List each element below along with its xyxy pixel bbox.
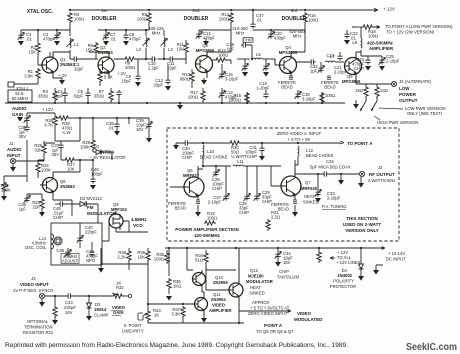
- svg-text:15K: 15K: [29, 50, 37, 55]
- svg-text:15K: 15K: [177, 47, 185, 52]
- capacitor C13: [219, 88, 238, 103]
- svg-text:L8: L8: [352, 40, 357, 45]
- svg-text:1N752A: 1N752A: [99, 150, 114, 155]
- svg-text:CHIP: CHIP: [243, 38, 253, 43]
- pot audio gain: [17, 115, 30, 125]
- svg-text:+ 2V: + 2V: [58, 73, 67, 78]
- resistor R19: [204, 211, 217, 225]
- svg-text:C48: C48: [56, 248, 64, 253]
- inductor L11: [233, 159, 262, 166]
- svg-text:PROTECTOR: PROTECTOR: [330, 284, 356, 289]
- wire amplifier collector: [352, 27, 361, 56]
- resistor R1: [24, 68, 40, 84]
- wire video modulated: [239, 310, 291, 313]
- svg-text:420-500MHz: 420-500MHz: [194, 233, 221, 238]
- node dots on top rail: [69, 9, 306, 11]
- transistor Q5: [344, 52, 362, 80]
- svg-text:MHz: MHz: [236, 31, 245, 36]
- resistor R3: [38, 88, 57, 103]
- label amplifier heading: [367, 41, 394, 51]
- svg-text:GAIN: GAIN: [12, 112, 23, 117]
- wire interstage 1: [50, 52, 98, 59]
- wire arrow +12V: [374, 8, 378, 11]
- svg-text:100Ω: 100Ω: [125, 65, 135, 70]
- label D4: [330, 268, 356, 289]
- wire video input: [45, 295, 112, 297]
- ferrite bead Q8: [168, 200, 201, 217]
- wire Q6 collector: [53, 160, 80, 216]
- label 420-500 MHz: [289, 29, 305, 39]
- svg-text:CHIP: CHIP: [239, 210, 249, 215]
- svg-text:.01: .01: [256, 18, 262, 23]
- svg-text:22K: 22K: [33, 205, 41, 210]
- svg-text:16V: 16V: [65, 310, 73, 315]
- svg-text:BEAD: BEAD: [278, 207, 289, 212]
- resistor R39: [137, 248, 150, 264]
- capacitor C33: [315, 173, 341, 203]
- svg-text:+ 12-14V: + 12-14V: [388, 251, 405, 256]
- svg-text:APPROX: APPROX: [252, 300, 270, 305]
- wire audio mid: [80, 118, 149, 141]
- svg-text:VIDEO INPUT: VIDEO INPUT: [20, 282, 49, 287]
- svg-text:SINKED: SINKED: [303, 200, 319, 205]
- label Q7: [301, 180, 319, 205]
- label optional termination: [23, 319, 54, 335]
- svg-text:100K: 100K: [1, 188, 11, 193]
- svg-text:+ 5 TO + 9V: + 5 TO + 9V: [288, 137, 311, 142]
- svg-text:– 9V REGULATOR: – 9V REGULATOR: [90, 155, 125, 160]
- label ZERO VIDEO INPUT: [277, 131, 322, 142]
- wire VCO bottom bus: [101, 264, 148, 270]
- capacitor C22: [344, 30, 358, 45]
- label DC input: [386, 251, 406, 262]
- svg-text:2.2Ω: 2.2Ω: [271, 215, 280, 220]
- svg-text:DOUBLER: DOUBLER: [282, 16, 307, 22]
- svg-text:CHIP: CHIP: [182, 155, 192, 160]
- capacitor C43: [64, 293, 76, 315]
- svg-text:100Ω: 100Ω: [325, 93, 335, 98]
- svg-text:100Ω: 100Ω: [74, 17, 84, 22]
- wire point A bus: [148, 311, 244, 323]
- svg-text:100Ω: 100Ω: [219, 17, 229, 22]
- svg-text:32pF: 32pF: [74, 67, 84, 72]
- svg-text:CHIP: CHIP: [354, 66, 364, 71]
- svg-text:2N3904: 2N3904: [211, 297, 226, 302]
- label Q5: [342, 74, 361, 84]
- capacitor C5: [73, 88, 90, 103]
- svg-text:100K: 100K: [80, 145, 90, 150]
- capacitor C32 series: [309, 59, 318, 73]
- capacitor C10: [148, 56, 159, 70]
- svg-text:+ 12V LINES: + 12V LINES: [336, 260, 361, 265]
- svg-text:P.A. TUNING: P.A. TUNING: [322, 204, 347, 209]
- capacitor C46: [90, 160, 103, 190]
- svg-text:15K: 15K: [138, 255, 146, 260]
- svg-text:CHIP: CHIP: [212, 186, 222, 191]
- connector J2 alternate: [391, 79, 432, 87]
- svg-text:BEAD: BEAD: [324, 85, 335, 90]
- resistor R14: [219, 12, 233, 24]
- leader lines version labels: [374, 108, 403, 120]
- svg-text:Reprinted with permission from: Reprinted with permission from Radio-Ele…: [5, 342, 348, 349]
- svg-text:MRF627: MRF627: [183, 173, 200, 178]
- svg-text:.01: .01: [26, 37, 32, 42]
- svg-text:L3: L3: [168, 47, 173, 52]
- svg-text:100Ω: 100Ω: [137, 17, 147, 22]
- ground symbol on rail: [177, 103, 183, 110]
- capacitor C12: [153, 65, 171, 91]
- svg-text:Q7: Q7: [305, 180, 311, 185]
- svg-text:+ 2V: + 2V: [117, 71, 126, 76]
- ferrite bead Q7: [271, 200, 298, 217]
- dashed enclosure: [167, 128, 399, 241]
- resistor R37: [147, 303, 195, 323]
- label FM MODULATOR: [87, 205, 117, 216]
- wire audio rail: [27, 113, 55, 141]
- svg-text:DOUBLER: DOUBLER: [92, 16, 117, 22]
- label 2nd doubler: [184, 8, 209, 22]
- svg-text:+ 12V: + 12V: [42, 107, 53, 112]
- label Q11: [209, 292, 232, 313]
- resistor R41: [317, 248, 321, 263]
- svg-text:15pF: 15pF: [167, 66, 177, 71]
- wire Q4 collector: [291, 40, 309, 62]
- diode D1: [90, 144, 125, 160]
- resistor R2: [29, 30, 41, 65]
- svg-text:J2 (ALTERNATE): J2 (ALTERNATE): [399, 79, 432, 84]
- svg-text:1st: 1st: [101, 8, 107, 13]
- svg-text:L10: L10: [207, 149, 215, 154]
- label 3rd doubler: [282, 8, 307, 22]
- label LOW PWR VERSION ONLY: [405, 106, 445, 116]
- svg-text:MHz: MHz: [293, 34, 302, 39]
- svg-text:OUTPUT: OUTPUT: [399, 98, 418, 103]
- resistor R4: [68, 12, 84, 24]
- label Q4: [279, 45, 298, 55]
- svg-text:POWER: POWER: [399, 92, 417, 97]
- svg-text:1N4002: 1N4002: [337, 273, 352, 278]
- label PA tuning: [322, 204, 347, 210]
- svg-text:CHIP: CHIP: [53, 215, 63, 220]
- svg-text:2000Ω: 2000Ω: [228, 98, 241, 103]
- wire Q10-Q11 link: [202, 270, 229, 298]
- svg-text:NPO: NPO: [86, 258, 96, 263]
- svg-text:BEAD: BEAD: [175, 206, 186, 211]
- svg-text:100Ω: 100Ω: [207, 216, 217, 221]
- label +12V to all lines: [330, 250, 361, 265]
- svg-text:1pF: 1pF: [310, 69, 318, 74]
- svg-text:100K: 100K: [41, 168, 51, 173]
- svg-text:16V: 16V: [136, 127, 144, 132]
- capacitor C15: [219, 64, 239, 82]
- svg-text:L1: L1: [74, 42, 79, 47]
- resistor R24: [36, 160, 51, 178]
- transistor Q6: [40, 172, 58, 196]
- svg-text:ZERO VIDEO INPUT: ZERO VIDEO INPUT: [248, 311, 288, 316]
- ground J2 stub: [358, 177, 364, 188]
- svg-text:DOUBLER: DOUBLER: [184, 16, 209, 22]
- wire +12V top rail: [70, 9, 378, 11]
- wire PA top feed: [176, 141, 344, 144]
- svg-text:R32: R32: [116, 285, 124, 290]
- transistor Q9 FET: [109, 211, 123, 230]
- svg-text:CHIP: CHIP: [247, 154, 257, 159]
- capacitor C45: [53, 201, 72, 220]
- svg-text:TANTALUM: TANTALUM: [277, 275, 299, 280]
- capacitor C11: [167, 56, 177, 70]
- svg-text:1N914: 1N914: [94, 307, 107, 312]
- transistor Q1: [38, 52, 58, 78]
- pot R33: [138, 304, 161, 323]
- capacitor C8: [123, 30, 141, 46]
- svg-text:MPS3866: MPS3866: [342, 79, 361, 84]
- pot R32: [112, 281, 132, 299]
- capacitor C36: [18, 125, 29, 139]
- svg-text:+ 5 TO + 6VOLTS AT: + 5 TO + 6VOLTS AT: [250, 306, 290, 311]
- svg-text:15Ω: 15Ω: [355, 88, 363, 93]
- resistor R11: [177, 40, 189, 59]
- resistor R29: [80, 128, 95, 152]
- transistor Q4: [271, 52, 297, 76]
- svg-text:FM: FM: [87, 205, 94, 210]
- svg-text:HEAT: HEAT: [304, 194, 315, 199]
- svg-text:POWER AMPLIFIER SECTION: POWER AMPLIFIER SECTION: [175, 227, 239, 232]
- svg-text:J2: J2: [378, 165, 383, 170]
- inductor L8: [352, 38, 362, 48]
- svg-text:2N3563: 2N3563: [60, 184, 75, 189]
- inductor L5: [237, 52, 271, 59]
- svg-text:LOW: LOW: [399, 86, 410, 91]
- svg-text:L2: L2: [136, 47, 141, 52]
- svg-text:1K: 1K: [154, 313, 159, 318]
- resistor R18: [352, 25, 380, 39]
- capacitor C27: [208, 192, 230, 205]
- inductor L1: [67, 38, 80, 48]
- label 105-125 MHz: [148, 26, 164, 36]
- capacitor C37: [51, 141, 80, 157]
- svg-text:10K: 10K: [67, 167, 75, 172]
- resistor R25: [34, 141, 55, 155]
- resistor R10: [180, 69, 194, 88]
- svg-text:C23: C23: [326, 53, 334, 58]
- connector J3: [39, 293, 45, 306]
- capacitor C3: [18, 30, 33, 46]
- capacitor C23: [326, 52, 342, 61]
- label TO POINT A: [385, 24, 453, 35]
- svg-text:HEAT: HEAT: [250, 285, 261, 290]
- capacitor C19: [295, 90, 316, 102]
- capacitor C47: [250, 10, 264, 29]
- label AUDIO GAIN: [12, 106, 27, 117]
- svg-text:LINEARITY: LINEARITY: [122, 329, 144, 334]
- wire J1 to amp: [16, 140, 44, 182]
- svg-text:OSC. COIL: OSC. COIL: [25, 245, 47, 250]
- svg-text:3rd: 3rd: [291, 8, 298, 13]
- version select arrow low pwr: [360, 101, 366, 111]
- connector J2 RF output: [359, 165, 395, 183]
- svg-text:POINT A: POINT A: [264, 323, 283, 328]
- ground C34 right: [338, 173, 344, 185]
- svg-text:MODULATOR: MODULATOR: [246, 279, 273, 284]
- svg-text:CHIP: CHIP: [279, 269, 289, 274]
- svg-text:100Ω: 100Ω: [188, 95, 198, 100]
- svg-text:15V: 15V: [283, 260, 291, 265]
- svg-text:INPUT: INPUT: [7, 153, 21, 158]
- label C34: [310, 159, 351, 170]
- wire interstage PA: [226, 166, 281, 192]
- svg-text:3-10pF: 3-10pF: [302, 97, 316, 102]
- svg-text:100Ω: 100Ω: [154, 257, 164, 262]
- capacitor C20: [268, 30, 287, 41]
- wire interstage 2: [89, 52, 186, 64]
- svg-text:BEAD CHOKE: BEAD CHOKE: [200, 155, 228, 160]
- wire Q7 collector: [295, 160, 322, 174]
- wire Q8 collector: [170, 166, 231, 187]
- resistor R38: [117, 248, 131, 264]
- svg-text:POLARITY: POLARITY: [333, 279, 354, 284]
- svg-text:ZERO VIDEO ∅ INPUT: ZERO VIDEO ∅ INPUT: [277, 131, 322, 136]
- svg-text:USED ON 2-WATT: USED ON 2-WATT: [343, 222, 381, 227]
- svg-text:SINKED: SINKED: [249, 291, 265, 296]
- svg-text:ADJUST: ADJUST: [62, 259, 79, 264]
- svg-text:430pF: 430pF: [274, 36, 286, 41]
- svg-text:TO POINT A (LOW PWR VERSION): TO POINT A (LOW PWR VERSION): [385, 24, 453, 29]
- transistor Q11: [192, 292, 208, 316]
- svg-text:+ 12V: + 12V: [383, 7, 395, 12]
- wire Q5 emitter to J2 alt: [356, 80, 391, 101]
- resistor R17: [188, 88, 205, 103]
- capacitor C38: [106, 118, 120, 136]
- svg-text:RF OUTPUT: RF OUTPUT: [369, 172, 395, 177]
- inductor L7: [325, 54, 344, 62]
- svg-text:2.2K: 2.2K: [117, 255, 126, 260]
- diode D2 varactor: [72, 196, 102, 223]
- svg-text:MJE180: MJE180: [248, 274, 264, 279]
- resistor R26: [44, 115, 57, 128]
- label 1st doubler: [92, 8, 117, 22]
- capacitor C42: [86, 242, 98, 263]
- svg-text:100Ω: 100Ω: [308, 18, 318, 23]
- svg-text:ONLY (SEE TEXT): ONLY (SEE TEXT): [407, 111, 443, 116]
- svg-text:220pF: 220pF: [85, 230, 97, 235]
- svg-text:330Ω: 330Ω: [94, 94, 104, 99]
- label Q12: [246, 268, 273, 296]
- svg-text:2N3563: 2N3563: [98, 50, 113, 55]
- resistor R5: [98, 69, 113, 86]
- wire +12V bus: [165, 247, 385, 250]
- pot R22: [1, 176, 27, 201]
- svg-text:D1: D1: [94, 144, 100, 149]
- svg-text:OPTIONAL: OPTIONAL: [27, 319, 49, 324]
- label Q8: [183, 168, 200, 178]
- svg-text:TERMINATION: TERMINATION: [24, 325, 53, 330]
- capacitor C30: [182, 140, 194, 160]
- svg-text:3.9K: 3.9K: [24, 74, 33, 79]
- svg-text:1pF: 1pF: [227, 47, 235, 52]
- capacitor C7: [103, 30, 117, 46]
- resistor divider R19: [355, 86, 368, 98]
- svg-text:THIS SECTION: THIS SECTION: [346, 216, 378, 221]
- svg-text:VIDEO: VIDEO: [212, 303, 226, 308]
- diode D4: [358, 248, 364, 281]
- svg-text:0. POINT: 0. POINT: [124, 323, 142, 328]
- svg-text:MODULATED: MODULATED: [294, 317, 323, 322]
- ground Q3 bias: [203, 38, 209, 46]
- label L14: [25, 236, 47, 250]
- inductor L2: [136, 37, 149, 52]
- transistor Q2: [98, 52, 114, 78]
- ground return hook: [373, 265, 383, 275]
- label point A: [256, 323, 294, 334]
- resistor R13: [320, 92, 335, 104]
- label Q1: [60, 57, 75, 67]
- svg-text:5pF MICA 50Ω COAX: 5pF MICA 50Ω COAX: [310, 165, 351, 170]
- svg-text:VCO: VCO: [133, 223, 143, 228]
- ferrite bead Q5: [321, 76, 339, 90]
- svg-text:2-10pF: 2-10pF: [208, 200, 222, 205]
- resistor R36: [166, 278, 181, 301]
- ground VCO box: [98, 248, 104, 273]
- svg-text:MRF630: MRF630: [301, 186, 318, 191]
- svg-text:420-500MHz: 420-500MHz: [367, 41, 394, 46]
- label 4.5MHz VCO: [131, 217, 147, 228]
- capacitor C2: [72, 56, 84, 71]
- svg-text:3-10pF: 3-10pF: [225, 77, 239, 82]
- label CHIP boxed: [243, 38, 253, 43]
- svg-text:62.5MHz: 62.5MHz: [12, 96, 29, 101]
- resistor R30: [229, 141, 247, 159]
- svg-text:15pF: 15pF: [121, 79, 131, 84]
- resistor R8: [124, 57, 136, 70]
- svg-text:1V P-P NEG. SYNCH: 1V P-P NEG. SYNCH: [13, 288, 53, 293]
- svg-text:1K: 1K: [116, 281, 121, 286]
- label Q10: [213, 275, 228, 285]
- VCO tank box: [51, 223, 102, 265]
- ground Q3 emitter: [201, 78, 207, 85]
- capacitor C26: [212, 166, 224, 191]
- svg-text:32K: 32K: [35, 148, 43, 153]
- capacitor C9: [121, 59, 141, 87]
- wire doubler3: [248, 24, 305, 59]
- svg-text:35V: 35V: [19, 134, 27, 139]
- ground PA input: [173, 143, 179, 150]
- capacitor C44: [275, 248, 293, 267]
- resistor R27: [61, 150, 93, 172]
- svg-text:680Ω: 680Ω: [180, 77, 190, 82]
- svg-text:470pF: 470pF: [129, 37, 141, 42]
- svg-text:SeekIC.com: SeekIC.com: [406, 341, 457, 353]
- wire local rail: [21, 24, 70, 59]
- version select arrow high pwr: [371, 101, 377, 111]
- svg-text:4.5MHz: 4.5MHz: [131, 217, 147, 222]
- resistor R16: [303, 12, 318, 24]
- resistor R9: [137, 12, 151, 24]
- resistor R6: [86, 42, 99, 59]
- resistor R29b: [266, 210, 280, 231]
- capacitor C31: [245, 143, 265, 161]
- svg-text:CLAMP: CLAMP: [94, 313, 109, 318]
- capacitor C4: [43, 30, 60, 46]
- svg-text:C34: C34: [326, 159, 334, 164]
- svg-text:J3: J3: [31, 276, 36, 281]
- svg-text:51Ω: 51Ω: [195, 258, 203, 263]
- svg-text:33pF: 33pF: [153, 83, 163, 88]
- svg-text:AMPLIFIER: AMPLIFIER: [209, 308, 232, 313]
- wire ground rail: [5, 102, 345, 104]
- svg-text:AMPLIFIER: AMPLIFIER: [369, 46, 394, 51]
- svg-text:470pF: 470pF: [203, 36, 215, 41]
- transistor Q7: [281, 168, 301, 200]
